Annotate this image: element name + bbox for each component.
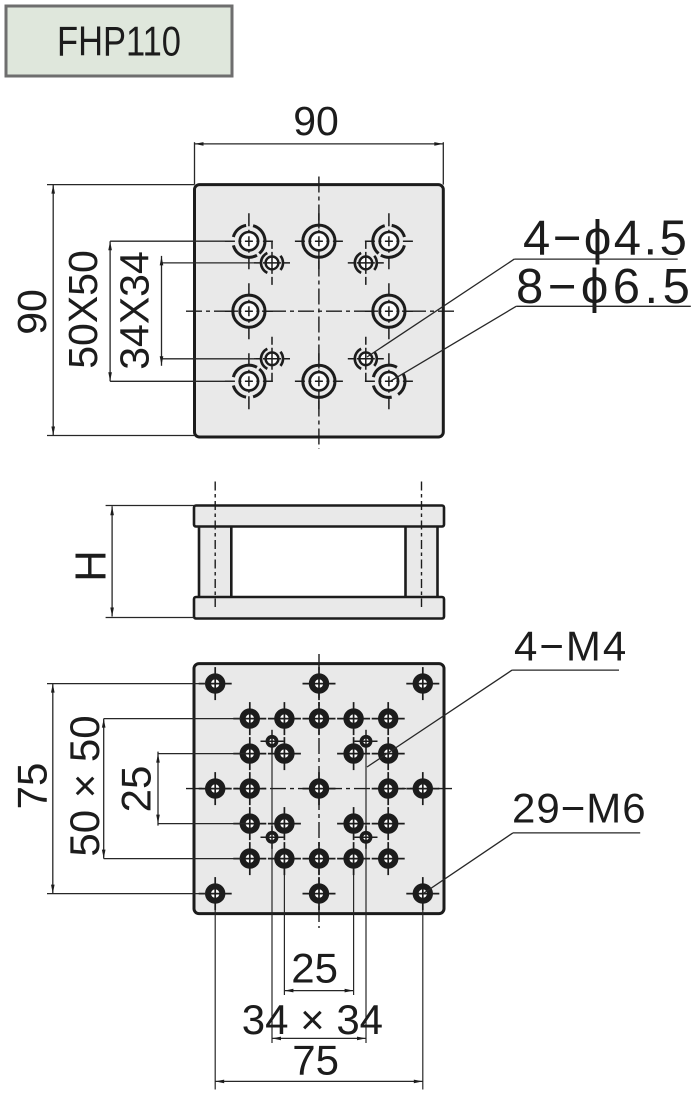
- extension line col 215 for dim 75 bottom: [214, 894, 216, 1090]
- extension line col 353 for dim 25 bottom: [353, 859, 355, 995]
- top view horizontal centerline: [186, 310, 457, 312]
- dimension 25 left bottom view: [113, 752, 249, 826]
- dimension 50x50 left bottom view: [61, 715, 241, 858]
- svg-text:4−M4: 4−M4: [514, 623, 628, 670]
- callout 4-phi4.5: [367, 212, 689, 358]
- dimension 75 left: [9, 684, 207, 894]
- svg-text:75: 75: [9, 763, 56, 810]
- dimension 50X50 top view: [60, 241, 234, 381]
- svg-text:29−M6: 29−M6: [512, 785, 647, 832]
- counterbore hole phi6.5 at 249,241: [225, 213, 273, 269]
- callout 8-phi6.5: [390, 260, 694, 382]
- counterbore hole phi6.5 at 249,311: [225, 283, 273, 339]
- tapped hole M6 at 354,754: [337, 737, 370, 770]
- tapped hole M6 at 215,684: [199, 667, 232, 700]
- extension line col 366 for dim 34x34 bottom: [365, 741, 367, 1043]
- svg-text:FHP110: FHP110: [57, 18, 181, 65]
- side view right centerline: [421, 482, 423, 608]
- tapped hole M6 at 250,754: [233, 737, 266, 770]
- svg-text:50 × 50: 50 × 50: [61, 715, 108, 856]
- tapped hole M6 at 354,859: [337, 842, 370, 875]
- tapped hole M6 at 388,754: [372, 737, 405, 770]
- tapped hole M6 at 354,824: [337, 807, 370, 840]
- tapped hole M6 at 284,719: [268, 702, 301, 735]
- dimension 34x34 bottom: [242, 996, 383, 1043]
- tapped hole M6 at 319,719: [303, 702, 336, 735]
- dimension 90 left: [9, 185, 195, 436]
- counterbore hole phi6.5 at 389,381: [365, 353, 413, 409]
- small hole phi4.5 at 272,263: [254, 241, 290, 285]
- title box FHP110: [6, 6, 232, 76]
- counterbore hole phi6.5 at 319,241: [295, 213, 343, 269]
- dimension 25 bottom: [284, 945, 353, 993]
- tapped hole M6 at 215,789: [199, 772, 232, 805]
- tapped hole M4 at 366,837: [355, 826, 378, 849]
- counterbore hole phi6.5 at 319,381: [295, 353, 343, 409]
- tapped hole M4 at 272,741: [261, 730, 284, 753]
- tapped hole M6 at 423,789: [406, 772, 439, 805]
- small hole phi4.5 at 366,359: [348, 337, 384, 381]
- svg-text:90: 90: [293, 98, 339, 144]
- dimension 75 bottom: [215, 1037, 423, 1084]
- bottom view plate body: [194, 664, 444, 914]
- small hole phi4.5 at 366,263: [348, 241, 384, 285]
- tapped hole M6 at 284,824: [268, 807, 301, 840]
- dimension H: [67, 506, 195, 618]
- side view left centerline: [214, 482, 216, 608]
- extension line col 284 for dim 25 bottom: [283, 859, 285, 995]
- bottom view horizontal centerline: [186, 788, 452, 790]
- top view plate body: [195, 185, 444, 437]
- side view right post: [406, 525, 438, 598]
- svg-text:H: H: [67, 550, 116, 582]
- svg-text:4−ϕ4.5: 4−ϕ4.5: [523, 212, 689, 266]
- extension line col 272 for dim 34x34 bottom: [271, 741, 273, 1043]
- tapped hole M4 at 272,837: [261, 826, 284, 849]
- tapped hole M6 at 215,894: [199, 877, 232, 910]
- tapped hole M6 at 250,824: [233, 807, 266, 840]
- counterbore hole phi6.5 at 249,381: [225, 353, 273, 409]
- top view vertical centerline: [318, 177, 320, 450]
- side view left post: [199, 525, 231, 598]
- tapped hole M6 at 250,719: [233, 702, 266, 735]
- svg-text:50X50: 50X50: [60, 250, 106, 369]
- extension line col 422 for dim 75 bottom: [422, 894, 424, 1090]
- tapped hole M6 at 388,719: [372, 702, 405, 735]
- callout 4-M4: [367, 623, 628, 768]
- tapped hole M6 at 423,684: [406, 667, 439, 700]
- svg-text:25: 25: [291, 945, 338, 992]
- tapped hole M6 at 388,859: [372, 842, 405, 875]
- svg-text:75: 75: [292, 1037, 339, 1084]
- svg-text:34X34: 34X34: [112, 251, 158, 370]
- dimension 34X34 top view: [112, 251, 257, 370]
- callout 29-M6: [424, 785, 647, 894]
- tapped hole M6 at 388,789: [372, 772, 405, 805]
- small hole phi4.5 at 272,359: [254, 337, 290, 381]
- side view bottom plate: [194, 597, 444, 619]
- tapped hole M6 at 319,894: [303, 877, 336, 910]
- counterbore hole phi6.5 at 389,311: [365, 283, 413, 339]
- tapped hole M6 at 423,894: [406, 877, 439, 910]
- tapped hole M6 at 354,719: [337, 702, 370, 735]
- bottom view vertical centerline: [318, 654, 320, 928]
- tapped hole M4 at 366,741: [355, 730, 378, 753]
- counterbore hole phi6.5 at 389,241: [365, 213, 413, 269]
- tapped hole M6 at 250,789: [233, 772, 266, 805]
- tapped hole M6 at 284,754: [268, 737, 301, 770]
- tapped hole M6 at 250,859: [233, 842, 266, 875]
- svg-text:25: 25: [113, 766, 160, 813]
- side view top plate: [194, 506, 444, 527]
- tapped hole M6 at 319,684: [303, 667, 336, 700]
- tapped hole M6 at 319,859: [303, 842, 336, 875]
- svg-text:90: 90: [9, 289, 55, 335]
- tapped hole M6 at 284,859: [268, 842, 301, 875]
- dimension 90 top: [195, 98, 444, 185]
- tapped hole M6 at 319,789: [303, 772, 336, 805]
- tapped hole M6 at 388,824: [372, 807, 405, 840]
